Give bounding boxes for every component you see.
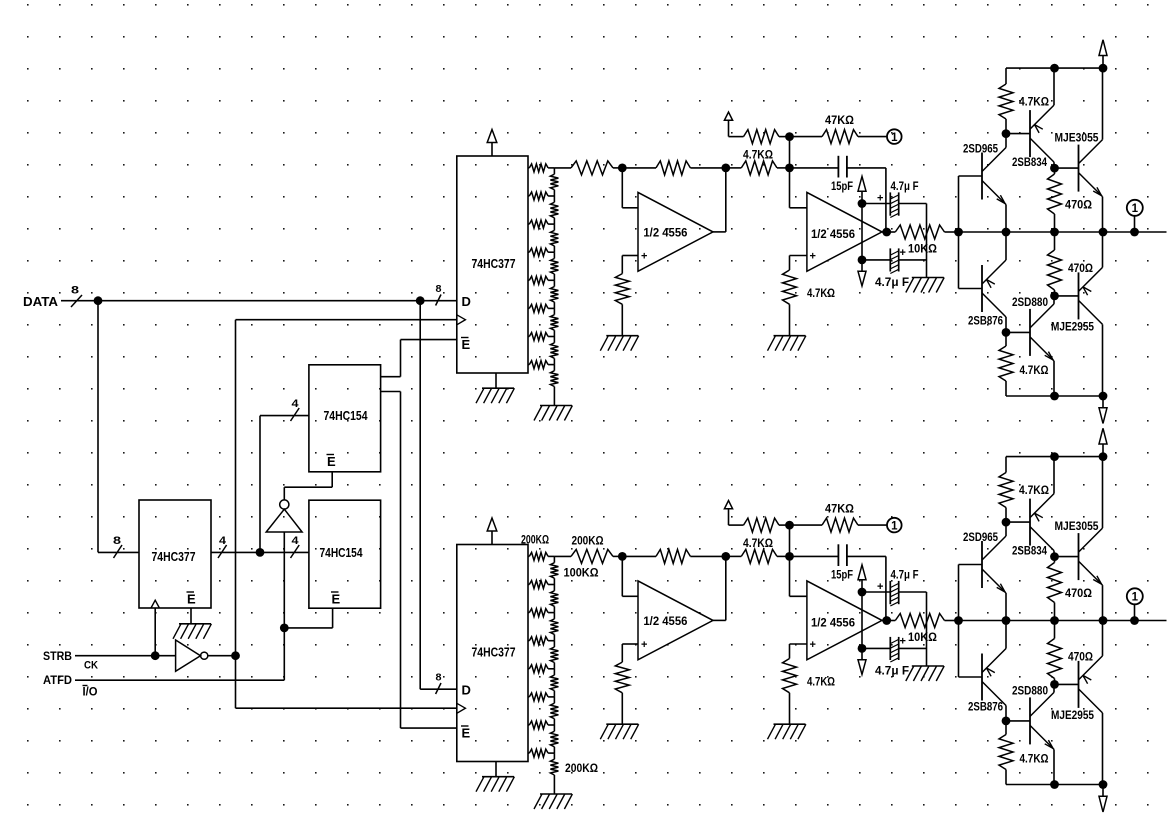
node driver bias node (bottom) bbox=[1002, 717, 1011, 726]
node driver collector node (bottom) bbox=[1050, 292, 1059, 301]
ladder resistor R2R-5 (U8) bbox=[553, 669, 555, 675]
ground under U7 bbox=[482, 387, 514, 389]
node V- node bbox=[858, 644, 867, 653]
ladder resistor R2R-2 (U7) bbox=[553, 196, 555, 202]
latch U7 74HC377 bbox=[457, 156, 528, 373]
svg-text:4.7KΩ: 4.7KΩ bbox=[1019, 483, 1049, 497]
transistor Q7b MJE2955 bbox=[1078, 661, 1080, 708]
svg-text:15pF: 15pF bbox=[831, 179, 853, 193]
wire bbox=[283, 532, 285, 628]
ladder resistor R3 (U7) bbox=[528, 223, 529, 225]
wire bbox=[789, 556, 791, 596]
svg-text:8: 8 bbox=[113, 535, 121, 547]
ladder resistor R4 (U7) bbox=[528, 251, 529, 253]
node driver bias node (top) bbox=[1002, 129, 1011, 138]
wire bbox=[790, 207, 807, 209]
power arrow V+ rail bbox=[1099, 428, 1107, 444]
resistor ladder-series bbox=[571, 549, 613, 563]
svg-text:4.7KΩ: 4.7KΩ bbox=[807, 675, 835, 689]
wire bbox=[401, 339, 457, 341]
wire bbox=[495, 762, 497, 777]
svg-text:D: D bbox=[462, 683, 471, 698]
svg-text:4.7KΩ: 4.7KΩ bbox=[1020, 363, 1049, 377]
capacitor 15pF bbox=[790, 555, 839, 557]
ladder resistor R2R-4 (U7) bbox=[553, 252, 555, 258]
svg-text:I/O: I/O bbox=[83, 685, 98, 699]
svg-text:2SD880: 2SD880 bbox=[1012, 683, 1048, 697]
svg-text:4.7KΩ: 4.7KΩ bbox=[743, 148, 773, 162]
svg-text:2SD965: 2SD965 bbox=[963, 142, 998, 156]
node rail junction bbox=[1099, 228, 1108, 237]
node rail junction bbox=[1002, 228, 1011, 237]
svg-text:4.7KΩ: 4.7KΩ bbox=[743, 536, 773, 550]
wire bbox=[259, 416, 261, 553]
negative rail bbox=[1006, 395, 1103, 397]
positive rail bbox=[1006, 67, 1103, 69]
resistor 47K bbox=[790, 524, 823, 526]
ladder resistor R8 (U7) bbox=[528, 364, 529, 366]
svg-text:470Ω: 470Ω bbox=[1065, 586, 1092, 600]
wire bbox=[789, 168, 791, 208]
transistor Q1 2SD965 bbox=[981, 153, 983, 200]
wire bbox=[381, 391, 401, 393]
svg-text:CK: CK bbox=[84, 660, 98, 672]
transistor Q3b MJE2955 bbox=[1078, 272, 1080, 319]
svg-text:47KΩ: 47KΩ bbox=[825, 502, 854, 516]
bus slash 8 at U8 D bbox=[436, 683, 441, 694]
svg-text:+: + bbox=[877, 581, 883, 593]
power arrow V- U10B bbox=[861, 648, 863, 659]
svg-text:74HC377: 74HC377 bbox=[472, 256, 516, 271]
ladder resistor R2R-4 (U8) bbox=[553, 641, 555, 647]
resistor 4.7K series bbox=[726, 167, 742, 169]
wire bbox=[1005, 522, 1007, 536]
wire bbox=[1005, 593, 1007, 621]
ladder resistor R2R-3 (U8) bbox=[553, 613, 555, 619]
ladder resistor R2R-6 (U8) bbox=[553, 697, 555, 703]
resistor ladder-series bbox=[571, 161, 613, 175]
node output-stage input bbox=[954, 616, 963, 625]
wire bbox=[622, 595, 638, 597]
wire bbox=[211, 551, 309, 553]
wire bbox=[284, 627, 332, 629]
ground under ladder bbox=[540, 793, 572, 795]
svg-text:+: + bbox=[877, 193, 883, 205]
wire bbox=[61, 300, 457, 302]
svg-text:4.7μ F: 4.7μ F bbox=[891, 179, 919, 193]
wire bbox=[713, 231, 726, 233]
node rail junction bbox=[1002, 616, 1011, 625]
wire bbox=[98, 551, 139, 553]
wire bbox=[1053, 296, 1055, 304]
svg-text:4: 4 bbox=[292, 398, 300, 410]
svg-text:470Ω: 470Ω bbox=[1068, 650, 1093, 664]
bus slash 4 at U3 input bbox=[291, 408, 300, 421]
svg-text:+: + bbox=[810, 639, 816, 651]
svg-text:4.7KΩ: 4.7KΩ bbox=[1019, 95, 1049, 109]
resistor 4.7K at U9B +input bbox=[783, 270, 797, 304]
resistor 4.7K bias (top) bbox=[1005, 68, 1007, 84]
svg-text:2SB876: 2SB876 bbox=[968, 700, 1003, 714]
wire bbox=[1005, 134, 1007, 148]
bus slash 8 on DATA bbox=[71, 295, 82, 307]
svg-text:200KΩ: 200KΩ bbox=[565, 761, 598, 775]
power arrow VCC U7 bbox=[491, 142, 493, 156]
wire bbox=[1005, 706, 1007, 721]
wire bbox=[621, 644, 623, 662]
svg-text:4: 4 bbox=[219, 535, 227, 547]
svg-text:ATFD: ATFD bbox=[43, 673, 72, 687]
wire bbox=[1134, 605, 1136, 621]
op-amp U9B 1/2 4556 bbox=[807, 192, 882, 271]
resistor 4.7K offset bbox=[744, 130, 780, 144]
bus slash 8 at 74HC377 U2 input bbox=[114, 545, 123, 558]
svg-text:470Ω: 470Ω bbox=[1065, 198, 1092, 212]
ladder resistor R7 (U7) bbox=[528, 336, 529, 338]
svg-text:+: + bbox=[900, 636, 906, 648]
clock symbol U8 bbox=[457, 703, 466, 713]
svg-text:74HC377: 74HC377 bbox=[472, 645, 516, 660]
power arrow V- rail bbox=[1102, 785, 1104, 797]
ladder resistor R2R-1 (U7) bbox=[553, 168, 555, 174]
wire bbox=[75, 679, 284, 681]
ground at U10A +input bbox=[606, 723, 638, 725]
wire bbox=[790, 643, 807, 645]
node driver collector node (top) bbox=[1050, 164, 1059, 173]
node rail junction bbox=[1050, 228, 1059, 237]
svg-text:74HC154: 74HC154 bbox=[324, 408, 369, 423]
wire bbox=[1005, 621, 1007, 649]
svg-text:8: 8 bbox=[436, 673, 442, 684]
wire bbox=[1102, 68, 1104, 140]
svg-text:4.7KΩ: 4.7KΩ bbox=[1020, 752, 1049, 766]
wire bbox=[885, 168, 887, 232]
resistor at U9A +input bbox=[615, 274, 629, 305]
svg-text:10KΩ: 10KΩ bbox=[908, 630, 937, 644]
svg-text:74HC377: 74HC377 bbox=[152, 549, 196, 564]
wire bbox=[621, 256, 623, 274]
wire bbox=[554, 555, 571, 557]
transistor Q5 2SD965 bbox=[981, 541, 983, 588]
wire bbox=[236, 319, 457, 321]
ladder resistor R5 (U8) bbox=[528, 668, 529, 670]
resistor 4.7K bias (top) bbox=[1005, 457, 1007, 473]
ladder resistor R2R-7 (U8) bbox=[553, 725, 555, 731]
svg-text:100KΩ: 100KΩ bbox=[564, 565, 599, 579]
wire bbox=[260, 415, 309, 417]
node rail junction bbox=[1050, 780, 1059, 789]
svg-text:4.7μ F: 4.7μ F bbox=[875, 664, 909, 678]
svg-text:74HC154: 74HC154 bbox=[320, 545, 364, 560]
wire bbox=[1053, 68, 1055, 105]
output rail bbox=[959, 231, 1167, 233]
transistor Q2b 2SD880 bbox=[1029, 309, 1031, 356]
node rail junction bbox=[1050, 392, 1059, 401]
wire bbox=[789, 525, 791, 556]
resistor at U10A +input bbox=[615, 662, 629, 693]
svg-text:E: E bbox=[332, 592, 341, 607]
ground at U10B +input bbox=[774, 723, 806, 725]
node nibble bus junction bbox=[256, 548, 265, 557]
ladder resistor R6 (U7) bbox=[528, 307, 529, 309]
wire bbox=[495, 373, 497, 388]
node output-stage input bbox=[954, 228, 963, 237]
wire bbox=[622, 643, 638, 645]
wire bbox=[208, 655, 236, 657]
wire bbox=[789, 644, 791, 659]
transistor Q3 MJE3055 bbox=[1078, 145, 1080, 192]
wire bbox=[861, 204, 863, 260]
resistor 4.7K bias (bottom) bbox=[1005, 332, 1007, 346]
ground at U9B +input bbox=[774, 335, 806, 337]
wire bbox=[1005, 205, 1007, 233]
resistor 470 (top) bbox=[1054, 557, 1056, 563]
feedback resistor (U10A) bbox=[622, 555, 656, 557]
ladder resistor R4 (U8) bbox=[528, 640, 529, 642]
capacitor 4.7uF (V+) bbox=[862, 591, 890, 593]
power arrow VCC U8 bbox=[491, 531, 493, 545]
node STRB-CK junction bbox=[151, 651, 160, 660]
svg-text:470Ω: 470Ω bbox=[1068, 261, 1093, 275]
ladder resistor R1 (U7) bbox=[528, 167, 529, 169]
wire bbox=[1053, 361, 1055, 396]
transistor Q8 2SB876 bbox=[981, 654, 983, 701]
power arrow V- U9B bbox=[861, 260, 863, 271]
wire bbox=[1053, 162, 1055, 168]
svg-text:STRB: STRB bbox=[43, 649, 72, 663]
wire bbox=[1102, 621, 1104, 656]
svg-text:MJE2955: MJE2955 bbox=[1051, 708, 1094, 722]
ladder resistor R2 (U7) bbox=[528, 195, 529, 197]
node op-amp2 inverting node bbox=[785, 552, 794, 561]
svg-text:4.7μ F: 4.7μ F bbox=[891, 568, 919, 582]
svg-text:8: 8 bbox=[436, 284, 442, 295]
svg-text:MJE3055: MJE3055 bbox=[1055, 131, 1099, 145]
wire bbox=[400, 392, 402, 729]
svg-text:1/2 4556: 1/2 4556 bbox=[643, 226, 687, 240]
svg-text:E: E bbox=[462, 337, 471, 352]
ladder termination resistor (U8) bbox=[553, 753, 555, 759]
ground at U9A +input bbox=[606, 335, 638, 337]
node V+ node bbox=[858, 199, 867, 208]
power arrow offset bbox=[724, 112, 732, 120]
resistor 470 (top) bbox=[1054, 168, 1056, 174]
op-amp U9A 1/2 4556 bbox=[638, 192, 713, 271]
power arrow V+ U10B bbox=[858, 565, 866, 580]
resistor 470 (bottom) bbox=[1054, 232, 1056, 250]
wire bbox=[882, 620, 887, 622]
node driver bias node (top) bbox=[1002, 518, 1011, 527]
wire bbox=[958, 565, 960, 678]
wire bbox=[926, 592, 928, 666]
transistor Q6 2SB834 bbox=[1029, 499, 1031, 546]
wire bbox=[885, 556, 887, 620]
ladder termination resistor (U7) bbox=[553, 365, 555, 371]
node rail junction bbox=[1050, 452, 1059, 461]
power arrow V- rail bbox=[1102, 396, 1104, 408]
ladder resistor R2R-6 (U7) bbox=[553, 308, 555, 314]
resistor 4.7K bias (bottom) bbox=[1005, 721, 1007, 735]
wire bbox=[1053, 551, 1055, 557]
node feedback node bbox=[721, 552, 730, 561]
svg-text:E: E bbox=[462, 726, 471, 741]
node DATA junction bbox=[94, 296, 103, 305]
transistor Q2 2SB834 bbox=[1029, 110, 1031, 157]
wire bbox=[283, 487, 285, 500]
svg-text:E: E bbox=[187, 592, 196, 607]
wire bbox=[789, 256, 791, 271]
capacitor 4.7uF (V+) bbox=[862, 203, 890, 205]
wire bbox=[1134, 217, 1136, 233]
node 47K junction bbox=[785, 521, 794, 530]
node rail junction bbox=[1050, 616, 1059, 625]
clock symbol U2 bbox=[151, 600, 159, 608]
power arrow V+ rail bbox=[1099, 40, 1107, 56]
wire bbox=[75, 655, 176, 657]
resistor 470 (bottom) bbox=[1054, 621, 1056, 639]
node op-amp1 inverting node bbox=[618, 164, 627, 173]
wire bbox=[1102, 324, 1104, 396]
wire bbox=[1005, 232, 1007, 260]
wire bbox=[331, 472, 333, 487]
ladder resistor R8 (U8) bbox=[528, 752, 529, 754]
node op-amp2 output bbox=[882, 616, 891, 625]
svg-text:1: 1 bbox=[1132, 592, 1139, 604]
latch U2 74HC377 bbox=[139, 500, 211, 608]
node driver collector node (bottom) bbox=[1050, 680, 1059, 689]
wire bbox=[236, 707, 457, 709]
wire bbox=[861, 592, 863, 648]
wire bbox=[284, 486, 332, 488]
ladder resistor R2R-3 (U7) bbox=[553, 224, 555, 230]
svg-text:E: E bbox=[327, 454, 336, 469]
svg-text:10KΩ: 10KΩ bbox=[908, 242, 937, 256]
wire bbox=[725, 168, 727, 232]
node 47K junction bbox=[785, 132, 794, 141]
op-amp U10B 1/2 4556 bbox=[807, 581, 882, 660]
svg-text:1/2 4556: 1/2 4556 bbox=[811, 227, 855, 241]
svg-text:4.7μ F: 4.7μ F bbox=[875, 275, 909, 289]
wire bbox=[621, 556, 623, 596]
node D-input junction bbox=[416, 296, 425, 305]
node V- node bbox=[858, 256, 867, 265]
wire bbox=[235, 320, 237, 656]
node rail junction bbox=[1099, 392, 1108, 401]
wire bbox=[790, 255, 807, 257]
wire bbox=[190, 608, 192, 624]
wire bbox=[420, 688, 457, 690]
svg-text:2SB876: 2SB876 bbox=[968, 314, 1003, 328]
wire bbox=[1102, 713, 1104, 785]
wire bbox=[154, 608, 156, 656]
ladder resistor R1 (U8) bbox=[528, 555, 529, 557]
ground under U8 bbox=[482, 776, 514, 778]
power arrow offset bbox=[724, 501, 732, 509]
ladder resistor R2R-5 (U7) bbox=[553, 280, 555, 286]
capacitor 4.7uF (V-) bbox=[862, 647, 890, 649]
wire bbox=[713, 619, 726, 621]
svg-text:1/2 4556: 1/2 4556 bbox=[811, 616, 855, 630]
wire bbox=[882, 231, 887, 233]
resistor 10K bbox=[887, 231, 896, 233]
svg-text:1/2 4556: 1/2 4556 bbox=[643, 614, 687, 628]
wire bbox=[790, 595, 807, 597]
transistor Q7 MJE3055 bbox=[1078, 533, 1080, 580]
ladder resistor R2R-1 (U8) bbox=[553, 556, 555, 562]
wire bbox=[725, 556, 727, 620]
wire bbox=[622, 255, 638, 257]
node output junction bbox=[1130, 616, 1139, 625]
svg-text:1: 1 bbox=[1132, 203, 1139, 215]
resistor 4.7K at U10B +input bbox=[783, 659, 797, 693]
capacitor 4.7uF (V-) bbox=[862, 259, 890, 261]
bus slash 4 at U4 input bbox=[291, 545, 300, 558]
svg-text:2SB834: 2SB834 bbox=[1012, 544, 1047, 558]
resistor 4.7K offset bbox=[744, 518, 780, 532]
svg-text:15pF: 15pF bbox=[831, 568, 853, 582]
wire bbox=[1053, 684, 1055, 692]
node op-amp1 inverting node bbox=[618, 552, 627, 561]
node output junction bbox=[1130, 228, 1139, 237]
ladder resistor R7 (U8) bbox=[528, 724, 529, 726]
wire bbox=[283, 628, 285, 680]
ground under ladder bbox=[540, 405, 572, 407]
ground at supply caps bbox=[912, 277, 944, 279]
wire bbox=[621, 168, 623, 208]
ground at U2 Ebar bbox=[179, 623, 211, 625]
node rail junction bbox=[1050, 64, 1059, 73]
svg-text:MJE2955: MJE2955 bbox=[1051, 320, 1094, 334]
wire bbox=[1053, 457, 1055, 494]
wire bbox=[401, 727, 457, 729]
svg-text:+: + bbox=[641, 251, 647, 263]
decoder U4 74HC154 bbox=[309, 500, 381, 608]
svg-text:4.7KΩ: 4.7KΩ bbox=[807, 286, 835, 300]
svg-text:+: + bbox=[900, 247, 906, 259]
output rail bbox=[959, 620, 1167, 622]
wire bbox=[926, 204, 928, 278]
node feedback node bbox=[721, 164, 730, 173]
resistor 10K bbox=[887, 620, 896, 622]
ladder resistor R6 (U8) bbox=[528, 696, 529, 698]
wire bbox=[1102, 197, 1104, 232]
wire bbox=[1102, 232, 1104, 267]
svg-text:2SD880: 2SD880 bbox=[1012, 295, 1048, 309]
node V+ node bbox=[858, 588, 867, 597]
transistor Q6b 2SD880 bbox=[1029, 697, 1031, 744]
node rail junction bbox=[1099, 616, 1108, 625]
wire bbox=[381, 376, 401, 378]
svg-text:4: 4 bbox=[292, 535, 300, 547]
wire bbox=[622, 207, 638, 209]
ladder resistor R3 (U8) bbox=[528, 612, 529, 614]
wire bbox=[1102, 457, 1104, 528]
svg-text:8: 8 bbox=[71, 285, 79, 297]
decoder U3 74HC154 bbox=[309, 365, 381, 472]
bus slash 4 after U2 bbox=[218, 545, 227, 558]
off-page connector 1 bbox=[887, 518, 902, 533]
node CK junction bbox=[231, 651, 240, 660]
svg-text:+: + bbox=[641, 639, 647, 651]
resistor 4.7K series bbox=[726, 555, 742, 557]
svg-text:+: + bbox=[810, 251, 816, 263]
wire bbox=[1102, 585, 1104, 620]
op-amp U10A 1/2 4556 bbox=[638, 581, 713, 660]
svg-text:1: 1 bbox=[891, 132, 898, 144]
node op-amp2 inverting node bbox=[785, 164, 794, 173]
node driver bias node (bottom) bbox=[1002, 328, 1011, 337]
ground at supply caps bbox=[912, 665, 944, 667]
